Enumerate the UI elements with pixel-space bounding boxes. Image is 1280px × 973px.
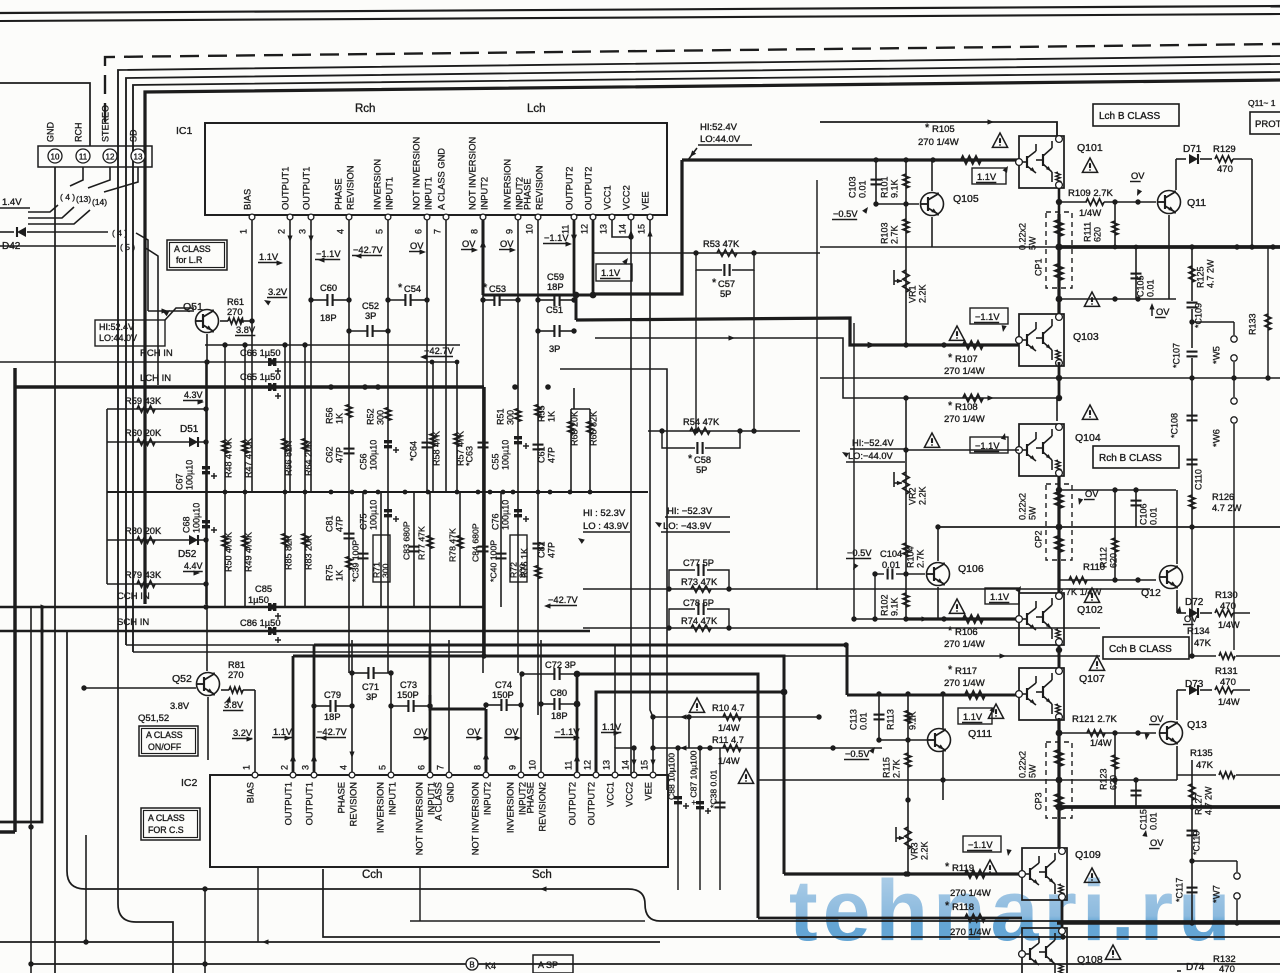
capacitor C64: [422, 442, 433, 444]
resistor CP3 b: [1056, 794, 1063, 810]
svg-text:2: 2: [276, 229, 286, 234]
svg-text:4: 4: [338, 765, 348, 770]
junction dots band bus: [223, 490, 228, 495]
box Lch B CLASS: [1093, 104, 1179, 126]
svg-text:NOT INVERSION: NOT INVERSION: [468, 137, 478, 210]
wire Q105 emitter: [931, 217, 933, 247]
svg-text:Q107: Q107: [1079, 673, 1105, 685]
svg-text:Lch B CLASS: Lch B CLASS: [1099, 111, 1160, 122]
svg-text:0.22x2: 0.22x2: [1017, 223, 1027, 250]
svg-text:*C39 100P: *C39 100P: [350, 540, 360, 582]
svg-text:*: *: [948, 625, 953, 637]
svg-text:47P: 47P: [334, 516, 344, 532]
svg-text:Cch B CLASS: Cch B CLASS: [1109, 644, 1172, 655]
svg-text:C55: C55: [490, 453, 500, 470]
wire thick sch drive: [293, 656, 784, 874]
svg-text:2.2K: 2.2K: [919, 841, 929, 860]
svg-text:LO:44.0V: LO:44.0V: [99, 333, 137, 343]
svg-text:15: 15: [636, 224, 646, 234]
wire bottom rail: [1057, 921, 1280, 924]
svg-text:R52: R52: [365, 408, 375, 425]
capacitor C82: [533, 543, 544, 545]
svg-text:Cch: Cch: [362, 869, 382, 881]
wire band top line: [205, 344, 460, 346]
svg-text:R11 4.7: R11 4.7: [712, 735, 744, 745]
svg-text:13: 13: [601, 760, 611, 770]
svg-text:1.1V: 1.1V: [963, 712, 983, 722]
svg-text:( 4 ): ( 4 ): [60, 192, 75, 202]
wire pin5 drop: [387, 220, 389, 673]
wire IC2 pin5 up: [390, 673, 392, 772]
svg-text:11: 11: [79, 153, 88, 162]
wire q13 emitter: [1176, 746, 1178, 780]
wire IC2 pin1 up: [254, 700, 256, 772]
wire pin6 drop: [426, 220, 428, 492]
svg-text:C80: C80: [550, 688, 567, 698]
svg-text:ON/OFF: ON/OFF: [148, 742, 182, 752]
svg-text:−42.7V: −42.7V: [548, 595, 579, 605]
resistor R73: [691, 586, 711, 592]
box Cch B CLASS: [1103, 637, 1189, 659]
wire Rch drive line: [595, 338, 1057, 421]
svg-text:HI:−52.4V: HI:−52.4V: [852, 438, 894, 448]
svg-text:R51: R51: [495, 408, 505, 425]
svg-text:( 5 ): ( 5 ): [120, 242, 135, 252]
svg-text:for L.R: for L.R: [176, 255, 202, 265]
svg-text:*: *: [688, 453, 693, 465]
svg-text:0.01: 0.01: [1148, 812, 1158, 830]
resistor R118 zig: [965, 915, 985, 922]
svg-text:2.2K: 2.2K: [917, 284, 927, 303]
capacitor C103: [875, 160, 877, 204]
svg-text:R110: R110: [1083, 562, 1105, 573]
svg-text:5: 5: [374, 229, 384, 234]
svg-text:2.7K: 2.7K: [915, 549, 925, 568]
svg-text:C103: C103: [847, 176, 857, 198]
wire pin11 drop thick: [573, 220, 576, 295]
svg-text:RCH: RCH: [73, 123, 83, 143]
svg-text:CP1: CP1: [1033, 258, 1043, 276]
svg-text:C56: C56: [358, 453, 368, 470]
wire pin3 drop: [310, 220, 312, 492]
label 1.1V boxed: [596, 264, 632, 281]
label 1.1V boxed s2: [985, 588, 1019, 604]
svg-text:R126: R126: [1212, 492, 1234, 502]
IC2 pin 12: [593, 772, 599, 778]
svg-text:A CLASS: A CLASS: [174, 244, 211, 254]
wire left band bracket: [106, 409, 108, 584]
warning s1 drive: [949, 326, 964, 340]
label 0V below: [1151, 306, 1153, 316]
svg-text:SD: SD: [128, 129, 138, 142]
svg-text:3.2V: 3.2V: [268, 287, 288, 297]
svg-text:13: 13: [598, 224, 608, 234]
IC1 pin 8: [480, 214, 486, 220]
resistor CP1 a: [1056, 220, 1063, 236]
svg-text:R113: R113: [885, 709, 895, 730]
warning Q109: [1084, 868, 1099, 882]
svg-text:270 1/4W: 270 1/4W: [944, 678, 985, 689]
wire D71 vert: [1175, 159, 1177, 190]
svg-text:INPUT1: INPUT1: [388, 782, 398, 815]
svg-text:−1.1V: −1.1V: [316, 249, 341, 259]
wire thick q109 drive: [784, 872, 1022, 875]
svg-text:C106: C106: [1138, 503, 1148, 525]
wire left v117 curve: [118, 600, 173, 973]
resistor R77: [427, 536, 433, 549]
svg-text:*W5: *W5: [1212, 346, 1223, 364]
svg-text:OUTPUT2: OUTPUT2: [587, 782, 597, 825]
wire rail2: [938, 526, 1280, 528]
wire q111 base line: [879, 739, 928, 741]
pin 13: [131, 149, 145, 163]
svg-text:15: 15: [639, 760, 649, 770]
svg-text:INPUT2: INPUT2: [480, 177, 490, 210]
wire bottom mid line: [410, 920, 645, 922]
resistor R102: [903, 593, 909, 607]
IC1 pin 15: [647, 214, 653, 220]
svg-text:9: 9: [507, 765, 517, 770]
wire q12 collector: [1176, 490, 1178, 564]
svg-text:C68: C68: [181, 516, 191, 533]
wire thick bus Lch: [682, 158, 1019, 161]
svg-text:R54 47K: R54 47K: [683, 417, 720, 427]
svg-text:R119: R119: [952, 863, 974, 874]
svg-text:0.22x2: 0.22x2: [1017, 493, 1027, 520]
capacitor C106: [1135, 490, 1137, 527]
svg-text:R101: R101: [879, 176, 889, 198]
wire thick q102 drive: [906, 617, 1019, 620]
wire c57 r54 links: [695, 270, 697, 431]
svg-text:C104: C104: [880, 549, 902, 559]
transistor Q108 darlington: [1022, 928, 1067, 973]
svg-text:9.1K: 9.1K: [889, 597, 899, 616]
node (4): [40, 231, 108, 233]
wire cch thick: [430, 695, 486, 709]
wire IC2 pin8 up thick: [484, 709, 487, 772]
IC2 pin 8: [483, 772, 489, 778]
transistor Q104 darlington: [1019, 424, 1064, 476]
svg-text:R134: R134: [1187, 626, 1210, 637]
warning mid: [738, 769, 753, 783]
transistor Q107 darlington: [1019, 668, 1064, 720]
svg-text:NOT INVERSION: NOT INVERSION: [471, 782, 481, 855]
svg-text:D51: D51: [180, 424, 199, 435]
capacitor C84: [478, 546, 489, 548]
svg-text:1.1V: 1.1V: [601, 268, 621, 278]
svg-text:R133: R133: [1247, 313, 1257, 335]
pot VR1: [903, 270, 909, 292]
svg-text:13: 13: [134, 153, 143, 162]
svg-text:Q11~ 1: Q11~ 1: [1248, 98, 1276, 108]
IC2 pin 7: [446, 772, 452, 778]
svg-text:SCH IN: SCH IN: [117, 617, 149, 628]
svg-text:*W6: *W6: [1212, 429, 1223, 447]
wire thick Rch drive bus: [576, 318, 872, 345]
wire upper band feed: [571, 408, 590, 410]
svg-text:Q104: Q104: [1075, 432, 1101, 444]
warning Q107: [1089, 656, 1104, 670]
svg-text:C76: C76: [490, 513, 500, 530]
svg-text:3: 3: [300, 765, 310, 770]
svg-text:C105: C105: [1135, 275, 1145, 297]
svg-text:R107: R107: [955, 354, 978, 365]
wire thick pin8 to pin12 bus: [483, 293, 593, 296]
resistor R78: [459, 492, 461, 607]
resistor R125: [1191, 247, 1193, 301]
wire IC2 pin13 link: [615, 748, 634, 772]
svg-text:R135: R135: [1190, 748, 1213, 759]
op-amp IC1 body: [205, 123, 667, 215]
svg-text:( 4 ): ( 4 ): [112, 228, 127, 238]
svg-text:R65 82K: R65 82K: [588, 411, 598, 446]
transistor Q11: [1158, 191, 1181, 214]
svg-text:R49 470K: R49 470K: [243, 532, 253, 572]
capacitor C87: [699, 748, 701, 890]
svg-text:C83 680P: C83 680P: [401, 521, 411, 560]
svg-text:3.2V: 3.2V: [233, 728, 253, 738]
wire q111 collector: [942, 694, 944, 729]
transistor Q103 darlington: [1019, 314, 1064, 366]
wire r10 r11 join: [688, 717, 690, 748]
capacitor C113: [878, 694, 880, 740]
IC1 pin 6: [424, 214, 430, 220]
pot CP2 dashed box: [1046, 484, 1072, 560]
svg-text:VCC1: VCC1: [606, 782, 616, 807]
wire thick cch drop: [0, 607, 42, 822]
wire q106 emitter down: [937, 587, 939, 619]
capacitor C76: [514, 509, 522, 512]
resistor R64: [304, 345, 306, 492]
svg-text:10: 10: [51, 153, 60, 162]
wire pin8 band: [482, 295, 484, 673]
resistor R121: [1087, 730, 1105, 736]
capacitor C119: [1187, 830, 1198, 832]
svg-text:OV: OV: [1131, 171, 1145, 181]
svg-text:C75: C75: [358, 513, 368, 530]
resistor R112: [1114, 490, 1116, 580]
svg-text:HI:52.4V: HI:52.4V: [700, 122, 738, 133]
IC2 pin 14: [631, 772, 637, 778]
pin 12: [103, 149, 117, 163]
svg-text:OV: OV: [462, 239, 476, 249]
box Rch B CLASS: [1093, 446, 1179, 468]
svg-text:C54: C54: [404, 284, 421, 294]
wire pin10 ground drop: [54, 167, 56, 973]
wire IC2 pin7 up: [448, 640, 450, 772]
wire vert 206: [205, 362, 207, 604]
svg-text:7: 7: [432, 229, 442, 234]
svg-text:Q51,52: Q51,52: [138, 713, 169, 724]
wire thick left drop: [13, 387, 16, 832]
svg-text:3P: 3P: [549, 344, 560, 354]
capacitor C40: [500, 492, 502, 607]
svg-text:6: 6: [413, 229, 423, 234]
svg-text:VCC2: VCC2: [625, 782, 635, 807]
transistor Q12: [1160, 566, 1183, 589]
capacitor C63: [478, 442, 489, 444]
pot CP1 dashed box: [1046, 212, 1072, 288]
IC1 pin 12: [590, 214, 596, 220]
svg-text:Q106: Q106: [958, 563, 984, 575]
resistor CP1 b: [1056, 264, 1063, 280]
resistor R110: [1069, 577, 1087, 583]
IC2 pin 4: [349, 772, 355, 778]
svg-text:300: 300: [375, 410, 385, 425]
warning q108: [1105, 945, 1120, 959]
svg-text:*: *: [398, 282, 403, 294]
svg-text:C60: C60: [320, 283, 337, 293]
node B: [466, 958, 478, 970]
resistor R66: [284, 345, 286, 492]
svg-text:R109 2.7K: R109 2.7K: [1068, 188, 1114, 199]
svg-text:−1.1V: −1.1V: [555, 727, 580, 737]
wire pin4 drop: [348, 220, 350, 673]
capacitor C88: [677, 748, 679, 890]
pot VR3: [905, 827, 911, 849]
svg-text:INPUT1: INPUT1: [385, 177, 395, 210]
svg-text:LO:−44.0V: LO:−44.0V: [848, 451, 894, 461]
svg-text:5: 5: [377, 765, 387, 770]
svg-text:IC2: IC2: [181, 777, 198, 789]
svg-text:R74 47K: R74 47K: [681, 616, 718, 626]
resistor R47: [244, 345, 246, 492]
capacitor C110: [1187, 459, 1198, 461]
svg-text:A SP: A SP: [538, 960, 558, 970]
svg-text:R80 20K: R80 20K: [125, 526, 162, 536]
svg-text:R81: R81: [228, 660, 245, 670]
wire thick CP2 col: [1057, 476, 1060, 593]
svg-text:PROT: PROT: [1255, 119, 1280, 130]
svg-text:9: 9: [504, 229, 514, 234]
svg-text:270: 270: [227, 307, 243, 317]
wire C78 line: [583, 627, 1100, 629]
svg-text:620: 620: [1092, 227, 1102, 242]
wire dashed control bus: [105, 44, 1280, 122]
svg-text:300: 300: [505, 410, 515, 425]
svg-text:100µ10: 100µ10: [500, 500, 510, 530]
svg-text:Q101: Q101: [1077, 142, 1103, 154]
svg-text:INPUT2: INPUT2: [483, 782, 493, 815]
wire pin12 lead: [88, 167, 110, 188]
svg-text:18P: 18P: [547, 282, 564, 292]
svg-text:C78 5P: C78 5P: [683, 598, 714, 608]
svg-text:R61: R61: [227, 297, 244, 307]
svg-text:R106: R106: [955, 627, 978, 638]
resistor R55: [535, 405, 541, 418]
wire bottom line y964: [31, 963, 1280, 965]
capacitor C57: [696, 253, 722, 270]
svg-text:REVISION: REVISION: [349, 782, 359, 826]
wire nested bus line c: [133, 72, 1280, 652]
transistor Q111: [928, 729, 951, 752]
connector W6: [1233, 424, 1235, 650]
wire pin11 lead: [70, 167, 83, 186]
wire line y378 ext: [820, 377, 1057, 379]
svg-text:K4: K4: [485, 961, 496, 971]
svg-text:OUTPUT2: OUTPUT2: [568, 782, 578, 825]
wire thick CP1 col: [1057, 214, 1060, 314]
resistor R76: [535, 566, 541, 579]
svg-text:R103: R103: [879, 222, 889, 244]
svg-text:4.7 2W: 4.7 2W: [1203, 786, 1213, 815]
wire q12 base line: [1059, 579, 1156, 581]
transistor Q106: [927, 563, 950, 586]
svg-text:1K: 1K: [334, 413, 344, 424]
IC1 pin 9: [515, 214, 521, 220]
svg-text:150P: 150P: [492, 690, 514, 700]
svg-text:VR2: VR2: [907, 487, 917, 505]
wire left v67 curve: [67, 631, 1280, 921]
wire SCH IN line: [0, 630, 590, 632]
svg-text:R121 2.7K: R121 2.7K: [1072, 714, 1118, 725]
svg-text:D72: D72: [1185, 597, 1204, 608]
svg-text:14: 14: [617, 224, 627, 234]
svg-text:Sch: Sch: [532, 869, 552, 881]
warning s2 drive2: [949, 599, 964, 613]
svg-text:300: 300: [380, 563, 390, 578]
svg-text:Rch: Rch: [355, 103, 375, 115]
svg-text:R118: R118: [952, 902, 974, 913]
IC2 pin 13: [612, 772, 618, 778]
svg-text:100µ10: 100µ10: [500, 440, 510, 470]
svg-text:INVERSION: INVERSION: [373, 159, 383, 210]
IC2 pin 11: [574, 772, 580, 778]
IC1 pin 2: [287, 214, 293, 220]
capacitor C38: [719, 748, 721, 890]
IC1 pin 11: [571, 214, 577, 220]
svg-text:GND: GND: [446, 782, 456, 803]
IC2 pin 9: [518, 772, 524, 778]
svg-text:OV: OV: [1085, 489, 1099, 499]
svg-text:12: 12: [582, 760, 592, 770]
junction dots band tops: [430, 360, 435, 365]
svg-text:9.1K: 9.1K: [889, 179, 899, 198]
wire R53 line: [593, 252, 820, 254]
wire R10 line: [653, 716, 819, 718]
svg-text:RCH IN: RCH IN: [140, 348, 173, 359]
wire IC2 pin4 up: [351, 640, 353, 772]
warning s3b: [982, 860, 997, 874]
wire q103 col: [1058, 362, 1061, 398]
capacitor C75: [384, 509, 392, 512]
svg-text:*C107: *C107: [1171, 343, 1181, 368]
svg-text:3: 3: [297, 229, 307, 234]
svg-text:OV: OV: [1156, 307, 1170, 317]
transistor Q52: [197, 673, 220, 696]
capacitor C81: [344, 533, 355, 535]
IC2 pin 15: [650, 772, 656, 778]
transistor Q13: [1160, 722, 1183, 745]
svg-text:270 1/4W: 270 1/4W: [944, 366, 985, 377]
warning s3a: [988, 704, 1003, 718]
svg-text:C113: C113: [848, 709, 858, 730]
svg-text:R50 470K: R50 470K: [223, 532, 233, 572]
resistor R83: [304, 492, 306, 607]
wire midline y652: [133, 651, 484, 653]
svg-text:0.01: 0.01: [1148, 507, 1158, 525]
svg-text:R64 20K: R64 20K: [303, 441, 313, 476]
svg-text:R85 82K: R85 82K: [283, 535, 293, 570]
capacitor C55: [514, 436, 522, 439]
svg-text:18P: 18P: [320, 313, 337, 323]
label 1.1V boxed q101: [972, 168, 1006, 184]
wire Q101 to Q11 base: [1059, 201, 1087, 203]
resistor R75: [346, 557, 352, 570]
IC1 pin 14: [628, 214, 634, 220]
svg-text:270 1/4W: 270 1/4W: [918, 137, 959, 148]
wire R80 line: [107, 539, 206, 541]
